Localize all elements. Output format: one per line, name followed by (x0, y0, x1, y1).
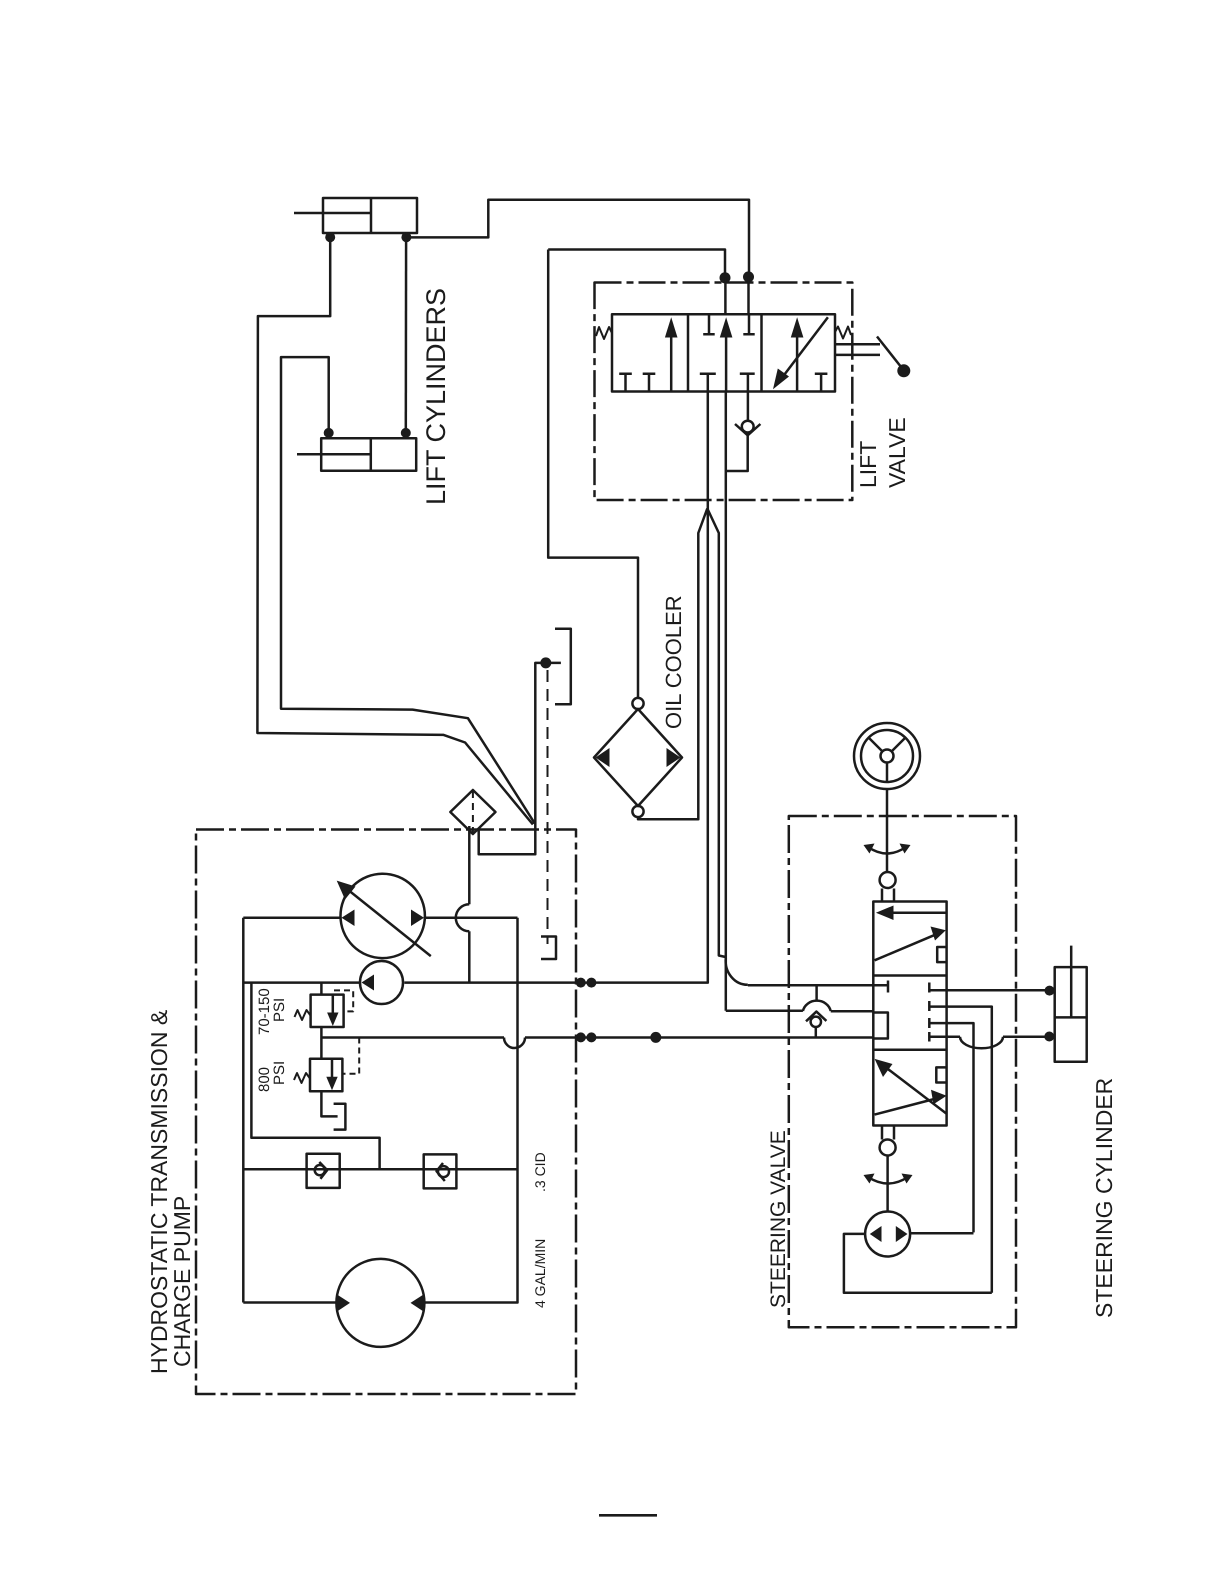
steering rotation arrow upper (868, 847, 906, 854)
lift valve drain line (dashed) (547, 670, 549, 944)
label LIFT CYLINDERS (421, 288, 451, 505)
check valve 2 body (424, 1154, 457, 1188)
relief valve 2 (800 PSI) body (310, 1059, 342, 1091)
hydrostatic transmission enclosure (dash-dot box) (196, 830, 576, 1395)
lift cylinder 2 port B stub (405, 430, 408, 438)
load check valve outlet (727, 433, 748, 472)
check valve 2 seat (437, 1163, 445, 1181)
steering valve bottom notch (936, 1067, 946, 1082)
lift cylinder 1 port A dot (325, 232, 335, 242)
wire inner return loop from cylinder 2 port A (281, 357, 535, 823)
svg-text:4 GAL/MIN: 4 GAL/MIN (532, 1239, 548, 1308)
gerotor right triangle (896, 1226, 908, 1242)
tank symbol (relief drain) (334, 1104, 346, 1130)
relief valve feed stub (320, 983, 323, 995)
label LIFT VALVE (855, 417, 910, 488)
svg-text:STEERING CYLINDER: STEERING CYLINDER (1091, 1078, 1117, 1318)
steering check valve ball (811, 1017, 821, 1027)
lift valve middle section bottom port T (P) (700, 372, 716, 375)
relief valve 1 (70-150 PSI) body (311, 995, 344, 1027)
suction filter diamond (450, 790, 495, 834)
lift valve section divider 1 (687, 314, 690, 391)
steering column ball joint upper (880, 872, 896, 888)
svg-text:.3 CID: .3 CID (532, 1152, 548, 1192)
steering cylinder rod (1070, 946, 1073, 1018)
lift valve left section blocked port T 1 (619, 374, 632, 392)
lift cylinder 1 rod (294, 212, 371, 215)
gerotor left triangle (870, 1226, 882, 1242)
steering valve right port bars (928, 983, 931, 1042)
charge pump flow triangle (362, 975, 375, 991)
gerotor left loop wire (844, 1234, 992, 1293)
junction dot lift valve port B (720, 272, 731, 283)
steering wheel outer rim (854, 723, 920, 789)
steering column shaft upper (886, 789, 889, 872)
wire lift valve port B upper run (548, 250, 725, 278)
lift valve lever handle (877, 337, 902, 368)
steering line dip under gerotor lines (960, 1037, 1003, 1049)
check valve rail wire (243, 1168, 517, 1171)
transmission right loop wire (425, 918, 518, 1303)
wire to oil cooler top (548, 250, 638, 699)
variable displacement pump circle (341, 874, 425, 958)
pressure line P from charge pump to lift valve (center) (404, 374, 708, 983)
label HYDROSTATIC TRANSMISSION & (146, 1010, 172, 1374)
steering valve blocked notch (left) (873, 1013, 888, 1039)
wire rod-side cylinders (between port B dots) (405, 237, 408, 433)
steering check valve bottom stub (815, 1027, 818, 1038)
relief valve 2 internal arrow (331, 1059, 334, 1080)
steering cylinder body (1055, 967, 1087, 1062)
label STEERING VALVE (767, 1130, 790, 1308)
wire motor left to wall (243, 1301, 336, 1304)
steering cylinder port dots (1044, 986, 1054, 1042)
lift valve body (612, 314, 835, 391)
wire pump left port to wall (243, 917, 340, 920)
steering valve P port bar (887, 981, 890, 993)
junction dots on line C at transmission boundary (576, 1032, 597, 1042)
check valve 1 body (307, 1154, 340, 1188)
steering valve bottom diagonal 2 (875, 1098, 940, 1115)
label 4 GAL/MIN (532, 1239, 548, 1308)
check valve 1 ball (315, 1165, 325, 1175)
charge line C (to steering valve lower port) (321, 1036, 504, 1039)
lift cylinder 2 piston (370, 438, 373, 470)
lift valve lever knob (897, 364, 910, 377)
gerotor right wire (910, 1232, 974, 1235)
relief valve 2 spring (294, 1073, 310, 1083)
relief valve 1 pilot line (dashed) (334, 990, 353, 1011)
steering valve top section arrow (left) (884, 911, 946, 914)
steering rotation arrow lower (868, 1177, 908, 1184)
steering valve stubs upper (882, 889, 894, 902)
pump variable displacement arrow (341, 884, 431, 956)
lift valve right section blocked port T (815, 374, 828, 392)
check valve 1 seat (319, 1162, 327, 1179)
pump left flow triangle (342, 910, 355, 927)
return manifold wire from junction to tank (535, 663, 561, 825)
steering line to cylinder bottom port (929, 1036, 960, 1039)
steering line R1 (to gerotor loop) (929, 1007, 992, 1293)
lift cylinder 1 piston (370, 198, 373, 233)
load check valve stem (747, 374, 750, 421)
steering valve divider 1 (873, 974, 946, 977)
lift cylinder 2 port B dot (401, 428, 411, 438)
steering valve bottom diagonal 1 (880, 1063, 947, 1114)
steering valve enclosure (dash-dot box) (789, 816, 1016, 1327)
svg-text:PSI: PSI (271, 998, 288, 1022)
lift valve enclosure (dash-dot box) (595, 283, 853, 501)
lift valve port A stub into valve (747, 277, 750, 314)
gerotor metering unit circle (865, 1212, 910, 1257)
relief valve 1 spring (295, 1010, 311, 1020)
wire outer return loop from cylinder 1 port A (257, 237, 533, 824)
steering line R2 (to gerotor) (929, 1023, 973, 1232)
label CHARGE PUMP (169, 1196, 195, 1367)
label STEERING CYLINDER (1091, 1078, 1117, 1318)
hollow flow arrow left flank / oil cooler return (638, 509, 707, 820)
charge motor circle (336, 1259, 424, 1347)
filter outlet drop wire (468, 826, 471, 904)
relief valve 1 internal arrow (332, 995, 335, 1016)
lift cylinder 2 port A stub (327, 430, 330, 438)
pump right flow triangle (411, 910, 424, 927)
lift cylinder 1 (top) body (323, 198, 417, 233)
check valve 2 ball (438, 1166, 449, 1177)
steering check valve top stub (815, 985, 818, 1001)
steering column shaft lower (886, 1156, 889, 1212)
charge motor right triangle (411, 1295, 424, 1312)
steering valve top section notch (937, 947, 946, 962)
wire between relief valves (320, 1027, 323, 1059)
wire cylinder 1 port B to lift valve port (406, 200, 749, 277)
load check valve seat (735, 424, 760, 435)
lift valve right section flow arrow (796, 322, 799, 392)
charge line C hop over transmission loop (504, 1038, 525, 1049)
charge pump suction wire (left of circle) (243, 981, 360, 984)
charge suction wire from check rail (251, 983, 379, 1170)
lift cylinder 1 port B stub (405, 233, 408, 240)
steering wheel inner rim (861, 730, 913, 782)
junction dot on line C (650, 1032, 661, 1043)
relief valve 2 drain wire (321, 1091, 337, 1116)
tank symbol (return header) (555, 629, 571, 705)
filter internal dashed line (472, 791, 474, 833)
lift valve left section blocked port T 2 (643, 374, 656, 392)
steering line to cylinder top port (929, 989, 1048, 992)
charge motor left triangle (337, 1295, 350, 1312)
label .3 CID (532, 1152, 548, 1192)
lift cylinder 1 port B dot (401, 232, 411, 242)
lift valve left section flow arrow (670, 322, 673, 392)
oil cooler body (diamond) (594, 709, 682, 806)
lift valve left spring (596, 327, 612, 339)
steering line to cylinder bottom continuation (1003, 1036, 1048, 1039)
lift valve middle section flow arrow (725, 322, 728, 392)
oil cooler right triangle (667, 748, 681, 767)
lift valve port B stub into valve (724, 278, 727, 314)
lift cylinder 1 port A stub (329, 233, 332, 240)
svg-text:LIFT: LIFT (855, 441, 881, 488)
lift valve middle section top blocked T 2 (743, 314, 754, 334)
lift valve middle section bottom port T (to check) (740, 372, 755, 375)
line from hump to steering valve blocked notch (831, 1010, 874, 1013)
lift valve middle section top blocked T 1 (703, 314, 715, 334)
steering valve stubs lower (882, 1126, 894, 1140)
lift cylinder 2 (bottom) body (321, 438, 416, 470)
tank symbol (drain, inside transmission) (541, 937, 556, 960)
svg-text:LIFT CYLINDERS: LIFT CYLINDERS (421, 288, 451, 505)
hollow flow arrow right flank (707, 509, 725, 958)
svg-text:PSI: PSI (271, 1061, 288, 1085)
wire pump right port (425, 917, 518, 920)
lift cylinder 2 port A dot (324, 428, 334, 438)
label 800 PSI (256, 1061, 288, 1092)
steering cylinder piston (1055, 1016, 1087, 1019)
svg-text:CHARGE PUMP: CHARGE PUMP (169, 1196, 195, 1367)
svg-text:OIL COOLER: OIL COOLER (661, 595, 686, 729)
oil cooler left triangle (596, 748, 610, 767)
steering valve divider 2 (873, 1049, 946, 1052)
wire hop over pump line (456, 904, 470, 931)
filter outlet drop wire lower (468, 931, 471, 982)
power beyond corner to blocked port line (726, 1010, 803, 1013)
charge pump circle (360, 961, 403, 1004)
power beyond line from lift valve to steering circuit (725, 392, 728, 1011)
steering valve body (873, 902, 946, 1126)
junction dot lift valve port A (743, 271, 754, 282)
return drop into filter U (479, 825, 536, 855)
oil cooler top port circle (632, 698, 643, 709)
oil cooler bottom port circle (632, 806, 643, 817)
lift valve lever rod (835, 344, 880, 355)
lift valve right section proportional diagonal (778, 317, 828, 383)
steering supply line to steering valve P (748, 984, 888, 987)
charge line C continuation (525, 1036, 873, 1039)
check valve bypass hump (803, 1001, 831, 1011)
lift valve right spring (835, 327, 851, 339)
steering supply branch arc (726, 958, 748, 985)
page mark line (599, 1514, 657, 1517)
svg-text:STEERING VALVE: STEERING VALVE (767, 1130, 790, 1308)
load check valve ball (742, 421, 754, 433)
steering column ball joint lower (880, 1140, 896, 1156)
steering wheel hub (881, 750, 894, 763)
transmission left wall wire (242, 918, 245, 1303)
junction dots on pressure line at transmission boundary (576, 978, 597, 988)
label OIL COOLER (661, 595, 686, 729)
steering valve top section diagonal arrow (875, 933, 940, 961)
steering check valve seat (806, 1012, 826, 1022)
lift cylinder 2 rod (297, 453, 371, 456)
relief valve 2 pilot line (dashed) (342, 1038, 359, 1074)
lift valve section divider 2 (760, 314, 763, 391)
steering wheel spokes (869, 738, 906, 783)
label 70-150 PSI (256, 988, 288, 1035)
junction dot (drain header) (540, 657, 551, 668)
svg-text:VALVE: VALVE (884, 417, 910, 488)
